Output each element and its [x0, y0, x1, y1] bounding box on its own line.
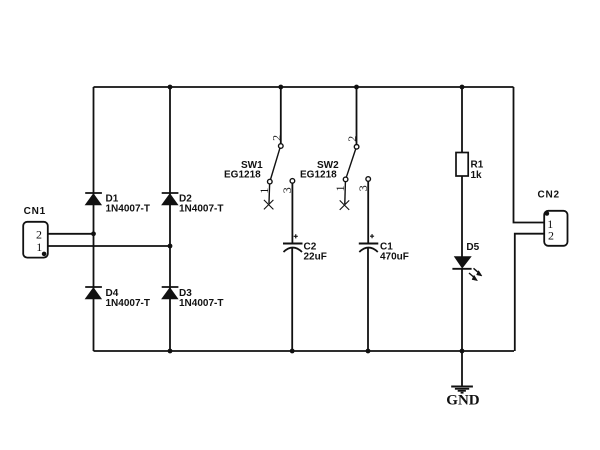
svg-text:1: 1 [36, 240, 42, 254]
wire left bridge column [93, 87, 95, 351]
svg-text:EG1218: EG1218 [224, 170, 261, 181]
junction top rail SW1 [278, 85, 283, 90]
junction bottom rail C1 [366, 349, 371, 354]
wire top rail [94, 86, 514, 88]
svg-text:2: 2 [345, 136, 359, 142]
svg-text:22uF: 22uF [304, 252, 327, 263]
wire SW2 pin3 to C1 [367, 181, 369, 243]
junction bottom rail GND [460, 349, 465, 354]
junction top rail SW2 [354, 85, 359, 90]
capacitor C2 [283, 234, 327, 351]
diode D2 [162, 193, 224, 215]
svg-text:1N4007-T: 1N4007-T [106, 298, 150, 309]
wire bottom rail [94, 350, 515, 352]
svg-text:1k: 1k [471, 170, 483, 181]
junction node bridge right [168, 244, 173, 249]
LED D5 [452, 242, 482, 351]
junction top rail R1 [460, 85, 465, 90]
capacitor C1 [359, 234, 409, 351]
junction top rail D2 [168, 85, 173, 90]
connector CN1 [23, 206, 48, 258]
svg-text:CN2: CN2 [538, 190, 560, 201]
wire CN1 pin1 to bridge [48, 245, 171, 247]
svg-text:R1: R1 [471, 160, 484, 171]
svg-text:D5: D5 [466, 242, 479, 253]
svg-text:2: 2 [548, 229, 554, 243]
wire top rail to CN2 pin1 [514, 87, 545, 223]
svg-text:1: 1 [333, 185, 347, 191]
wire right bridge column [169, 87, 171, 351]
diode D3 [162, 287, 224, 309]
svg-text:470uF: 470uF [380, 252, 409, 263]
wire CN1 pin2 to bridge [48, 233, 94, 235]
svg-text:1N4007-T: 1N4007-T [106, 204, 150, 215]
junction bottom rail D3 [168, 349, 173, 354]
svg-text:2: 2 [269, 135, 283, 141]
svg-text:CN1: CN1 [24, 206, 46, 217]
diode D1 [85, 193, 150, 215]
wire SW1 pin3 to C2 [291, 183, 293, 243]
svg-text:EG1218: EG1218 [300, 170, 337, 181]
switch SW2 [300, 87, 371, 210]
resistor R1 [456, 87, 484, 257]
svg-text:1N4007-T: 1N4007-T [179, 298, 223, 309]
svg-text:1: 1 [257, 188, 271, 194]
ground [446, 351, 480, 409]
connector CN2 [538, 190, 568, 246]
wire CN2 pin2 to bottom rail [515, 234, 544, 351]
junction node bridge left [91, 231, 96, 236]
switch SW1 [224, 87, 295, 209]
junction bottom rail C2 [290, 349, 295, 354]
svg-text:1N4007-T: 1N4007-T [179, 204, 223, 215]
diode D4 [85, 287, 150, 309]
svg-text:GND: GND [446, 393, 480, 409]
